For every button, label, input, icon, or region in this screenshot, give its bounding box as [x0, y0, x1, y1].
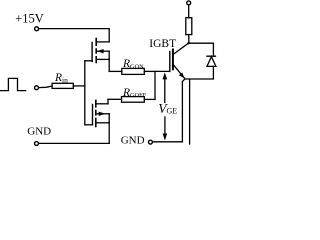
wire gate junction to IGBT gate — [155, 70, 170, 72]
M1 channel bar — [95, 38, 97, 64]
M2 drain rail — [107, 99, 109, 104]
node collector junction — [187, 42, 189, 44]
D1 cathode bar — [207, 55, 215, 57]
M2 gate bar — [92, 105, 94, 125]
wire RGON to gate junction — [144, 70, 155, 72]
transistor M1 (upper MOSFET) — [85, 38, 109, 72]
M1 gate lead — [85, 60, 92, 62]
M1 gate bar — [91, 43, 93, 62]
gate bus wire — [84, 61, 86, 125]
wire right GND to emitter node — [153, 141, 183, 143]
input terminal — [35, 86, 39, 90]
transistor M2 (lower MOSFET) — [85, 99, 109, 143]
wire left GND to M2 source rail — [39, 142, 109, 144]
D1 triangle — [207, 57, 216, 67]
IGBT emitter lead with arrow — [173, 64, 185, 78]
M1 source rail — [108, 51, 110, 71]
+15V terminal — [35, 27, 39, 31]
input pulse waveform symbol — [0, 78, 25, 90]
wire diode to emitter node — [185, 66, 214, 79]
M1 drain stub — [96, 41, 109, 43]
wire load resistor to collector node — [188, 35, 190, 44]
M2 body lead with arrow — [96, 113, 109, 115]
IGBT body bar — [172, 50, 174, 70]
VGE upper arrow — [164, 79, 166, 103]
M1 source stub — [96, 58, 109, 60]
wire RGOFF to M2 drain — [108, 98, 122, 100]
svg-text:GND: GND — [121, 135, 145, 147]
M2 gate lead — [85, 124, 93, 126]
svg-text:IGBT: IGBT — [149, 38, 176, 50]
svg-text:+15V: +15V — [15, 11, 44, 25]
wire collector node to diode — [189, 43, 214, 56]
M2 drain stub — [96, 103, 108, 105]
wire +15V to M1 drain — [39, 29, 109, 42]
svg-text:GND: GND — [27, 125, 51, 137]
M2 source rail to ground wire — [108, 114, 110, 144]
wire gate junction down to RGOFF — [154, 71, 156, 99]
IGBT Q1 — [170, 43, 189, 78]
diode D1 (freewheel) — [207, 56, 216, 66]
resistor RGOFF — [122, 97, 145, 103]
VGE measurement arrow — [163, 72, 168, 140]
wire Rin to gate bus — [73, 85, 85, 87]
resistor RGON — [122, 68, 145, 74]
supply terminal (collector side) — [187, 1, 191, 5]
wire input to Rin — [39, 86, 52, 88]
M2 channel bar — [95, 100, 97, 128]
GND terminal (right) — [148, 140, 152, 144]
wire terminal to load resistor — [188, 5, 190, 18]
IGBT collector lead — [173, 43, 188, 54]
M2 source stub — [96, 122, 109, 124]
M1 body lead with arrow — [96, 50, 109, 52]
GND terminal (left) — [35, 142, 39, 146]
wire M1 source to RGON — [109, 70, 122, 72]
resistor Rin — [52, 83, 73, 88]
load resistor (collector) — [186, 18, 192, 35]
IGBT gate bar — [169, 52, 171, 72]
VGE lower arrow — [164, 117, 166, 134]
wire emitter to ground — [182, 79, 184, 142]
wire RGOFF right lead — [144, 98, 155, 100]
wire diode return downward — [189, 79, 191, 144]
